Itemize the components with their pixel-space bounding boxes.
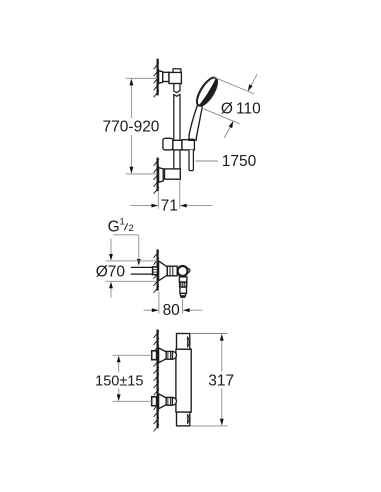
thermostat body center xyxy=(176,349,191,412)
thermostat bottom cap xyxy=(177,412,190,426)
outlet tip xyxy=(180,293,185,295)
svg-text:2: 2 xyxy=(128,223,133,234)
dimension Ø70 xyxy=(106,239,158,298)
svg-text:770-920: 770-920 xyxy=(103,119,160,136)
svg-text:317: 317 xyxy=(208,372,234,389)
svg-text:150±15: 150±15 xyxy=(95,374,143,390)
svg-text:G: G xyxy=(108,219,120,236)
dimension 317 xyxy=(190,334,227,426)
ribbed hose nut xyxy=(179,282,188,287)
svg-text:80: 80 xyxy=(163,302,181,319)
slider holder knob xyxy=(163,138,173,150)
dimension 71 xyxy=(130,180,212,209)
top bracket flange xyxy=(159,71,163,84)
slider handle cup xyxy=(182,140,194,150)
hose xyxy=(189,150,193,171)
dimension Ø 110 xyxy=(202,74,258,138)
wall segment top (with hatching) xyxy=(154,59,159,98)
wall segment bottom (top drawing) xyxy=(154,158,159,194)
svg-text:1750: 1750 xyxy=(222,153,257,170)
handle socket dark band xyxy=(188,139,194,141)
bottom bracket block xyxy=(165,169,181,179)
top bracket cylinder xyxy=(163,72,169,81)
rail (with break symbol) xyxy=(173,84,180,170)
hand shower head xyxy=(193,74,222,109)
outlet cylinder xyxy=(180,287,187,293)
dimension 150±15 xyxy=(113,355,152,401)
dimension 80 xyxy=(144,292,203,314)
escutcheon flange Ø70 xyxy=(159,261,168,281)
hand shower handle xyxy=(189,101,202,140)
slider middle piece xyxy=(173,140,182,150)
outlet neck xyxy=(179,277,187,282)
svg-text:1: 1 xyxy=(120,216,125,227)
lower union xyxy=(152,394,177,409)
svg-text:Ø 110: Ø 110 xyxy=(221,101,261,118)
svg-text:Ø70: Ø70 xyxy=(96,263,126,280)
supply pipe G1/2 xyxy=(131,267,153,274)
thermostat top cap xyxy=(177,334,190,350)
wall segment (middle) xyxy=(154,249,159,292)
top bracket block xyxy=(169,72,181,83)
label G 1/2 with leader xyxy=(114,235,139,260)
side port bump xyxy=(185,268,190,273)
bottom bracket flange xyxy=(159,168,164,183)
dimension 770-920 xyxy=(126,78,158,174)
hex nut on pipe xyxy=(153,267,158,275)
svg-text:71: 71 xyxy=(161,198,178,215)
upper union xyxy=(152,348,177,363)
connector between flange and ball xyxy=(167,266,177,276)
union ball body xyxy=(178,266,188,276)
leader 1750 (hose length) xyxy=(196,160,218,162)
wall segment (bottom) xyxy=(154,330,159,432)
